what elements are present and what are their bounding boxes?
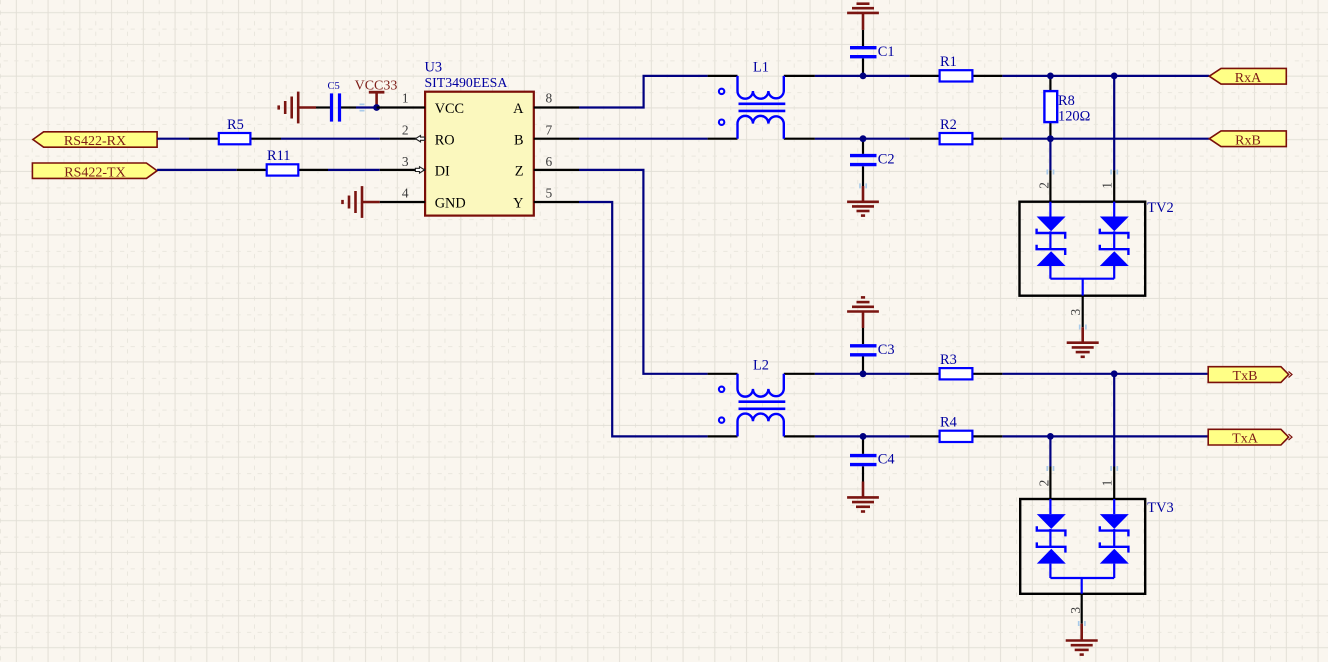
svg-text:5: 5 [546,186,553,201]
port RS422-RX [33,132,157,149]
wire R1 to RxA [1002,75,1209,77]
svg-text:6: 6 [546,154,553,169]
wire L1 top-right to R1 [815,75,910,77]
svg-text:R8: R8 [1058,93,1075,109]
svg-text:TV3: TV3 [1147,500,1173,516]
transformer L2 [708,358,815,437]
junction C2 row B [860,135,867,142]
wire R5 to U3 pin2 [281,138,380,140]
svg-text:L1: L1 [753,60,769,76]
capacitor C5 [316,81,377,122]
ground below C4 [847,482,879,512]
wire RS422-TX to R11 [157,169,237,171]
svg-text:R1: R1 [940,54,957,70]
junction TV2 pin1 column [1111,73,1118,80]
wire RxA row to TV2 pin 1 [1113,76,1115,170]
port RxB [1209,131,1286,148]
ground below TV3 [1066,624,1098,655]
port TxA [1208,429,1292,446]
svg-text:TxB: TxB [1233,369,1258,384]
svg-text:C3: C3 [878,342,895,358]
svg-text:R11: R11 [267,148,290,164]
capacitor C4 [850,436,895,481]
power VCC33 [355,79,398,108]
resistor R4 [910,415,1003,443]
svg-text:C2: C2 [878,152,895,168]
svg-text:C4: C4 [878,452,895,468]
svg-text:RxB: RxB [1235,133,1261,148]
resistor R1 [910,54,1003,82]
capacitor C3 [850,328,895,374]
right TVS pair [1113,499,1115,514]
ground above C1 [847,4,879,30]
wire L2 top-right to R3 [815,373,910,375]
op-amp U1: IC U3 SIT3490EESA [377,60,579,216]
svg-text:2: 2 [1037,182,1052,189]
svg-text:2: 2 [1037,480,1052,487]
capacitor C1 [850,30,895,76]
port TxB [1208,367,1292,384]
TVS diode array TV2 [1020,170,1174,327]
wire TxA row to TV3 pin 2 [1049,436,1051,466]
wire R4 to TxA [1002,435,1208,437]
svg-text:R3: R3 [940,352,957,368]
wire U3 Y to L2 bottom-left [579,202,708,436]
wire RS422-RX to R5 [157,138,189,140]
left TVS pair [1049,499,1051,514]
pin 4 GND [380,201,425,203]
svg-text:Z: Z [515,164,524,180]
wire L1 bottom-right to R2 [815,138,910,140]
svg-text:7: 7 [546,122,553,137]
junction C1 row A [860,73,867,80]
svg-text:C5: C5 [328,81,340,92]
svg-text:3: 3 [402,154,409,169]
pin 2 stub [1049,467,1051,500]
pin 5 Y [534,201,579,203]
wire TxB row to TV3 pin 1 [1113,374,1115,467]
svg-text:1: 1 [1099,182,1114,189]
svg-text:Y: Y [513,196,523,212]
TVS diode array TV3 [1020,467,1173,624]
pin 8 A [534,106,579,108]
svg-text:4: 4 [402,186,409,201]
junction TxA/TV3 pin2 [1047,433,1054,440]
wire RxB row to TV2 pin 2 [1049,139,1051,171]
svg-text:A: A [513,101,524,117]
pin 2 stub [1049,170,1051,202]
left TVS pair [1049,202,1051,217]
junction TxB/TV3 pin1 [1111,370,1118,377]
wire R2 to RxB [1002,138,1209,140]
svg-text:R4: R4 [940,415,957,431]
junction C3 row TxB [860,370,867,377]
wire L2 bottom-right to R4 [815,435,910,437]
svg-text:DI: DI [435,164,450,180]
pin 1 VCC [377,106,426,108]
svg-text:L2: L2 [753,358,769,374]
svg-text:RS422-RX: RS422-RX [64,134,126,149]
joining wire [1050,278,1114,280]
svg-text:RxA: RxA [1235,71,1262,86]
svg-text:3: 3 [1068,309,1083,316]
junction pin1/VCC [373,104,380,111]
svg-text:C1: C1 [878,44,895,60]
pin 7 B [534,138,579,140]
wire R3 to TxB [1002,373,1208,375]
transformer L1 [708,60,815,139]
svg-text:B: B [514,132,524,148]
pin 3 DI [380,169,425,171]
svg-text:R5: R5 [227,117,244,133]
svg-text:RO: RO [435,132,455,148]
pin 1 stub [1113,170,1115,202]
port RS422-TX [32,163,157,180]
svg-text:R2: R2 [940,117,957,133]
resistor R5 [189,117,281,145]
ground below C2 [847,186,879,216]
junction R8 bottom [1047,135,1054,142]
ground below TV2 [1067,327,1099,357]
svg-text:2: 2 [402,122,409,137]
right TVS pair [1113,202,1115,217]
ground above C3 [847,297,879,328]
svg-text:VCC33: VCC33 [355,79,398,94]
capacitor C2 [850,139,895,186]
svg-text:VCC: VCC [435,101,464,117]
svg-text:TV2: TV2 [1147,200,1173,216]
junction C4 row TxA [860,433,867,440]
resistor R11 [237,148,328,176]
svg-text:RS422-TX: RS422-TX [64,165,125,180]
wire R11 to U3 pin3 [328,169,380,171]
node ERC marks [360,104,1118,626]
pin 6 Z [534,169,579,171]
wire U3 B to L1 bottom-left [579,138,708,140]
ground left of C5 [279,92,316,124]
svg-text:1: 1 [1099,480,1114,487]
svg-text:3: 3 [1068,607,1083,614]
ground at U3 pin4 [343,186,380,218]
resistor R8 [1044,76,1090,139]
port RxA [1209,68,1286,85]
pin 3 stub [1082,296,1084,328]
pin 2 RO [380,138,425,140]
svg-text:U3: U3 [425,60,443,76]
joining wire [1050,577,1114,579]
junction R8 top [1047,73,1054,80]
resistor R3 [910,352,1003,380]
pin 3 stub [1081,594,1083,624]
wire U3 A to L1 top-left [579,76,708,108]
wire U3 Z to L2 top-left [579,170,708,374]
svg-text:TxA: TxA [1232,432,1259,447]
svg-text:GND: GND [435,196,466,212]
svg-text:1: 1 [402,91,409,106]
pin 1 stub [1113,467,1115,500]
svg-text:SIT3490EESA: SIT3490EESA [425,75,508,90]
svg-text:120Ω: 120Ω [1058,108,1090,124]
svg-text:8: 8 [546,91,553,106]
resistor R2 [910,117,1003,145]
